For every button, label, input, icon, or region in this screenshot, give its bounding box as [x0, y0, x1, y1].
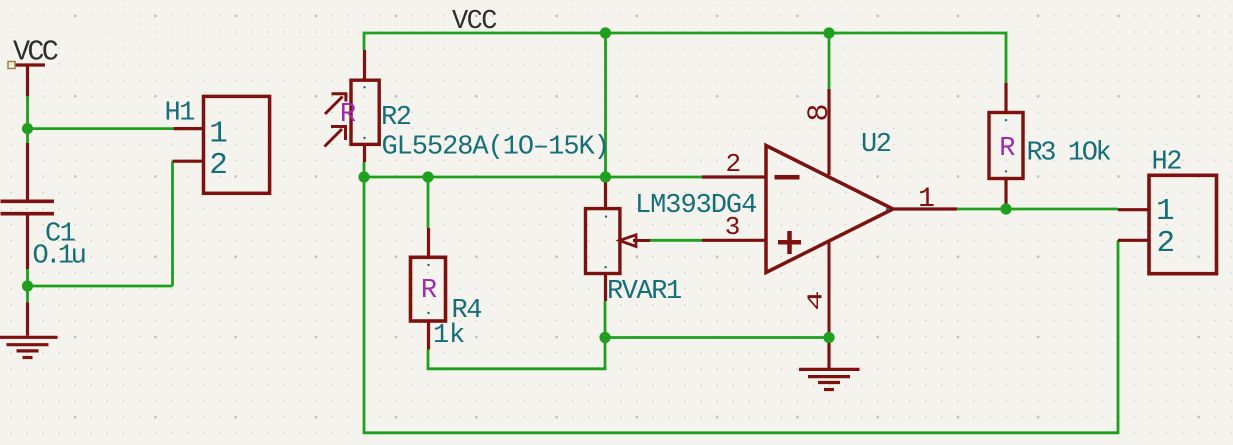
svg-text:H2: H2	[1152, 148, 1182, 178]
svg-text:3: 3	[725, 212, 741, 242]
svg-text:1k: 1k	[433, 321, 465, 351]
svg-text:2: 2	[725, 149, 741, 179]
svg-text:VCC: VCC	[13, 36, 58, 69]
svg-text:2: 2	[209, 148, 228, 183]
svg-text:R: R	[421, 276, 437, 306]
svg-text:4: 4	[805, 290, 828, 310]
svg-text:R: R	[340, 100, 356, 130]
svg-text:VCC: VCC	[452, 7, 497, 37]
svg-text:R3 1Ok: R3 1Ok	[1027, 139, 1111, 169]
svg-text:RVAR1: RVAR1	[607, 277, 681, 307]
svg-text:1: 1	[1156, 194, 1175, 229]
svg-text:8: 8	[803, 103, 837, 121]
svg-text:R: R	[999, 134, 1015, 164]
svg-text:2: 2	[1156, 226, 1175, 261]
svg-text:H1: H1	[165, 98, 195, 128]
svg-text:1: 1	[918, 184, 935, 215]
svg-text:R2: R2	[381, 103, 411, 133]
svg-text:O.1u: O.1u	[33, 241, 85, 271]
svg-text:1: 1	[209, 116, 228, 151]
svg-text:U2: U2	[861, 130, 891, 160]
svg-text:GL5528A(1O–15K): GL5528A(1O–15K)	[382, 133, 609, 163]
